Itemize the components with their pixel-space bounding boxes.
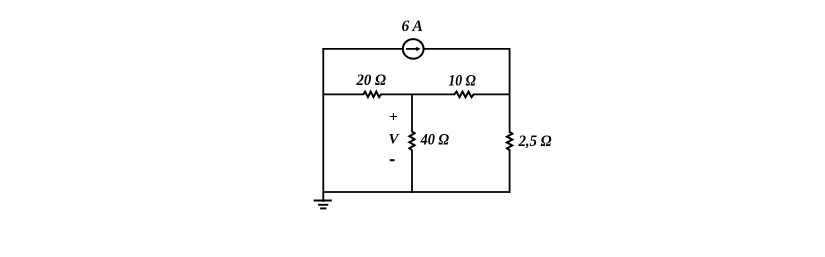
svg-text:40 Ω: 40 Ω — [420, 131, 450, 148]
svg-text:20 Ω: 20 Ω — [356, 72, 387, 89]
svg-text:V: V — [388, 132, 400, 148]
svg-text:10 Ω: 10 Ω — [448, 72, 476, 89]
svg-text:+: + — [389, 109, 398, 125]
svg-text:2,5 Ω: 2,5 Ω — [518, 133, 552, 150]
svg-text:6 A: 6 A — [402, 18, 423, 35]
